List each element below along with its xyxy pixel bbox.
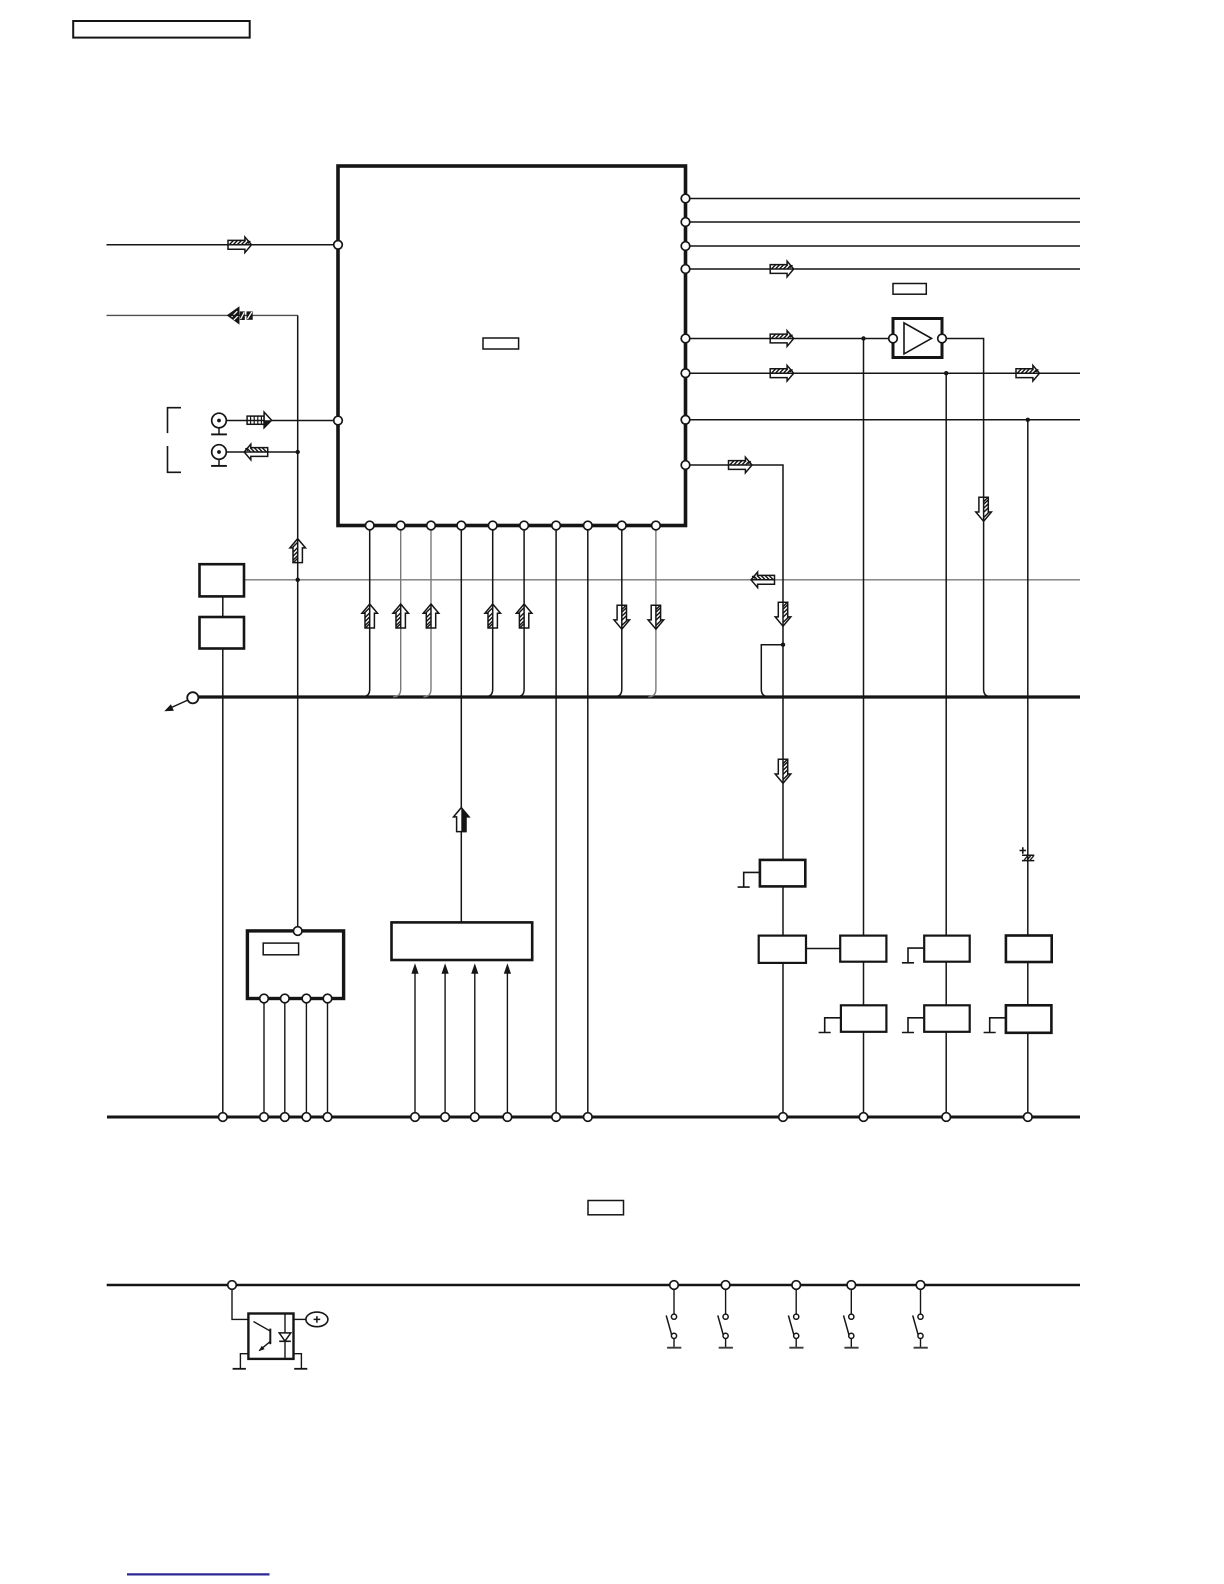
bracket top corner (168, 408, 182, 433)
pulse waveform symbol at B8 (984, 1018, 1006, 1033)
wire: B8 down to lower bus (1027, 1033, 1029, 1117)
node circle on lower bus: U1 pin B8 (584, 1113, 593, 1122)
wire: B6 down to lower bus (945, 1032, 947, 1117)
wire: box B down to lower bus (222, 649, 224, 1118)
node circle on lower bus: B8 chain (1024, 1113, 1033, 1122)
pulse waveform symbol at B1 (738, 872, 760, 887)
node circle on lower bus: tuner pin 2 (281, 1113, 290, 1122)
ground left of PC1 (240, 1354, 248, 1369)
pin buffer input (889, 334, 898, 343)
wire: U1 pin B9 curving into upper bus (614, 526, 622, 697)
down arrow on line 8 vertical (lower) (775, 759, 791, 783)
block B4 (924, 936, 970, 962)
node circle at upper bus left end (187, 692, 198, 703)
switch S1 (666, 1281, 681, 1348)
junction dot: line 6 branch (944, 371, 948, 375)
phototransistor inside PC1 (254, 1322, 271, 1352)
pulse waveform symbol at B4 (902, 948, 924, 963)
RCA jack J2 (audio in) (211, 445, 227, 466)
pin U1 bottom 8 (584, 521, 593, 530)
wire: grey control line from box A across page (244, 579, 1080, 581)
pin U1 bottom 6 (520, 521, 529, 530)
bus: bottom switch bus (107, 1284, 1080, 1287)
block B2 (759, 936, 806, 963)
pin U1 bottom 2 (396, 521, 405, 530)
node circle on lower bus: OSD pin 3 (471, 1113, 480, 1122)
blue footer rule (127, 1573, 270, 1575)
wire with arrowhead: lower bus up into OSD block pin 4 (504, 963, 511, 1117)
wire: U1 pin B6 curving into upper bus (517, 526, 525, 697)
block B6 (924, 1005, 970, 1032)
title box (empty header label) (73, 21, 250, 38)
block B8 (bold) (1006, 1005, 1052, 1033)
bus: lower thick bus (107, 1116, 1080, 1119)
diagonal arrow at upper bus left end (164, 700, 188, 711)
wire: U1 right line 6 (686, 372, 1081, 374)
up arrow on pin B3 wire (423, 604, 439, 628)
wire: U1 pin B4 down to OSD block (460, 526, 462, 923)
switch S2 (718, 1281, 733, 1348)
bus: upper thick ground bus (198, 695, 1080, 698)
wire: U1 right line 4 (686, 268, 1081, 270)
up arrow on pin B6 wire (516, 604, 532, 628)
wire: U1 right line 1 (686, 198, 1081, 200)
pin U1 bottom 9 (618, 521, 627, 530)
wire: input line 2 (grey, to recording out) (107, 314, 298, 316)
node circle on lower bus: B5 chain (859, 1113, 868, 1122)
switch S3 (788, 1281, 803, 1348)
wire: U1 pin B8 down to lower bus (587, 526, 589, 1118)
block B7 (bold) (1006, 936, 1052, 963)
wire: tuner pin 1 to lower bus (263, 999, 265, 1118)
box B (control block lower) (200, 617, 245, 649)
ground right of PC1 (294, 1354, 302, 1369)
up arrow on tuner vertical wire (290, 539, 306, 563)
node circle on lower bus: U1 pin B7 (552, 1113, 561, 1122)
label box inside U1 (483, 338, 519, 349)
up arrow on pin B2 wire (393, 604, 409, 628)
box A (control block upper) (200, 564, 245, 596)
wire: tuner pin 4 to lower bus (327, 999, 329, 1118)
up arrow on pin B5 wire (485, 604, 501, 628)
junction dot: vertical on grey control line (296, 578, 300, 582)
buffer U2 box (893, 319, 942, 358)
junction dot: J2 return on vertical (296, 450, 300, 454)
pin U1 left 2 (334, 416, 343, 425)
node circle on lower bus: B2 chain (779, 1113, 788, 1122)
wire: bottom bus down into optocoupler (232, 1290, 248, 1320)
wire: U1 pin B1 curving into upper bus (362, 526, 370, 697)
wire: B3 to B5 (863, 962, 865, 1006)
left block arrow on grey control line (751, 572, 775, 588)
node circle on lower bus: tuner pin 1 (260, 1113, 269, 1122)
node circle on lower bus: B6 chain (942, 1113, 951, 1122)
wire: J2 to vertical node (226, 451, 297, 453)
down arrow on pin B9 wire (614, 605, 630, 629)
pin U1 bottom 4 (457, 521, 466, 530)
switch S5 (913, 1281, 928, 1348)
wire with arrowhead: lower bus up into OSD block pin 2 (442, 963, 449, 1117)
pin U1 bottom 5 (488, 521, 497, 530)
down arrow on pin B10 wire (648, 605, 664, 629)
left block arrow on J2 wire (244, 444, 268, 460)
wire: J1 to U1 (226, 420, 338, 422)
node circle on lower bus: tuner pin 4 (323, 1113, 332, 1122)
junction dot: line 8 hook branch (781, 643, 785, 647)
pin U1 right 5 (681, 334, 690, 343)
label box above bottom bus (588, 1201, 624, 1215)
wire: U1 right line 3 (686, 245, 1081, 247)
signal arrow right on line 4 (770, 261, 794, 277)
wire: PC1 to supply oval (294, 1318, 306, 1320)
wire: U1 to buffer U2 input (686, 338, 894, 340)
pulse waveform symbol at B5 (819, 1018, 841, 1033)
wire: input line 1 to U1 (107, 244, 339, 246)
pulse waveform symbol at B6 (902, 1018, 924, 1033)
wire: B1 to B2 (782, 886, 784, 935)
wire: U1 right line 7 (686, 419, 1081, 421)
wire: U1 right line 2 (686, 221, 1081, 223)
signal arrow right on line 6 (right) (1016, 365, 1040, 381)
LED inside PC1 (279, 1314, 291, 1359)
wire: box A to box B (222, 597, 224, 617)
pin tuner bottom 3 (302, 994, 311, 1003)
wire: tuner pin 2 to lower bus (284, 999, 286, 1118)
optocoupler PC1 box (248, 1314, 293, 1359)
wire: U1 pin B10 (grey) curving into upper bus (648, 526, 656, 697)
tuner block T1 (247, 931, 343, 999)
block B1 (bold) (760, 860, 805, 887)
label box inside tuner T1 (263, 943, 298, 955)
node circle on lower bus: OSD pin 1 (411, 1113, 420, 1122)
pin U1 right 4 (681, 265, 690, 274)
wire: vertical from input line 2 down to tuner block (297, 315, 299, 931)
wire: buffer output to vertical drop (946, 339, 991, 697)
pin U1 right 6 (681, 369, 690, 378)
pin U1 right 3 (681, 242, 690, 251)
wire: B5 down to lower bus (863, 1032, 865, 1117)
node circle on lower bus: OSD pin 4 (503, 1113, 512, 1122)
OSD block (middle) (392, 922, 533, 960)
wire: U1 right line 8 to corner (686, 465, 784, 860)
pin U1 right 7 (681, 416, 690, 425)
pin U1 bottom 3 (427, 521, 436, 530)
down arrow on line 8 vertical (upper) (775, 602, 791, 626)
optocoupler PC1 assembly (232, 1290, 328, 1369)
block B3 (840, 936, 886, 962)
pin U1 right 2 (681, 218, 690, 227)
wire with arrowhead: lower bus up into OSD block pin 3 (471, 963, 478, 1117)
AV signal arrow (vertical hatch) on J1 wire (247, 412, 272, 428)
signal arrow right on input line 1 (228, 237, 252, 253)
up arrow on pin B1 wire (362, 604, 378, 628)
pin tuner bottom 1 (260, 994, 269, 1003)
label box above buffer U2 (893, 284, 926, 295)
bracket bottom corner (168, 446, 182, 472)
supply oval with plus (306, 1312, 328, 1327)
pin buffer output (938, 334, 947, 343)
pin U1 right 8 (681, 461, 690, 470)
pin tuner top (293, 927, 302, 936)
signal arrow right on line 8 (729, 457, 753, 473)
pin tuner bottom 4 (323, 994, 332, 1003)
node circle on lower bus: OSD pin 2 (441, 1113, 450, 1122)
segmented left arrow on input line 2 (228, 308, 253, 324)
wire: U1 pin B2 (grey) curving into upper bus (393, 526, 401, 697)
wire: vertical from line 6 node down to block B4 (945, 373, 947, 935)
switch S4 (844, 1281, 859, 1348)
pin U1 bottom 10 (652, 521, 661, 530)
wire: U1 pin B5 curving into upper bus (485, 526, 493, 697)
junction dot: buffer input branch (861, 336, 865, 340)
wire with arrowhead: lower bus up into OSD block pin 1 (411, 963, 418, 1117)
node circle on lower bus: box B line (219, 1113, 228, 1122)
node circle on bottom bus: optocoupler (228, 1281, 237, 1290)
wire: B2 to B3 (806, 948, 840, 950)
wire: vertical from buffer input node down to block B3 (863, 339, 865, 936)
pin tuner bottom 2 (281, 994, 290, 1003)
pin U1 bottom 1 (365, 521, 374, 530)
IC U1 main block (338, 166, 686, 526)
wire: B4 to B6 (945, 962, 947, 1006)
B+ supply symbol on block B7 feed (1020, 847, 1035, 860)
signal arrow right on line 6 (left) (770, 365, 794, 381)
wire: U1 pin B7 down to lower bus (555, 526, 557, 1118)
node circle on lower bus: tuner pin 3 (302, 1113, 311, 1122)
buffer U2 triangle (904, 323, 932, 354)
junction dot: line 7 branch (1026, 418, 1030, 422)
black solid up arrow on pin B4 wire (454, 808, 470, 832)
block B5 (841, 1005, 887, 1032)
pin U1 left 1 (334, 241, 343, 250)
wire: U1 pin B3 (grey) curving into upper bus (424, 526, 432, 697)
pin U1 bottom 7 (552, 521, 561, 530)
RCA jack J1 (audio out) (211, 413, 227, 434)
wire: tuner pin 3 to lower bus (305, 999, 307, 1118)
signal arrow right on buffer line (770, 331, 794, 347)
down arrow on buffer output vertical (976, 497, 992, 521)
wire: B7 to B8 (1027, 962, 1029, 1005)
wire: vertical from line 7 node down to B+ and block B7 (1027, 420, 1029, 936)
wire: B2 down to lower bus (782, 963, 784, 1117)
pin U1 right 1 (681, 194, 690, 203)
wire: hook from line 8 vertical into upper bus (761, 645, 783, 697)
